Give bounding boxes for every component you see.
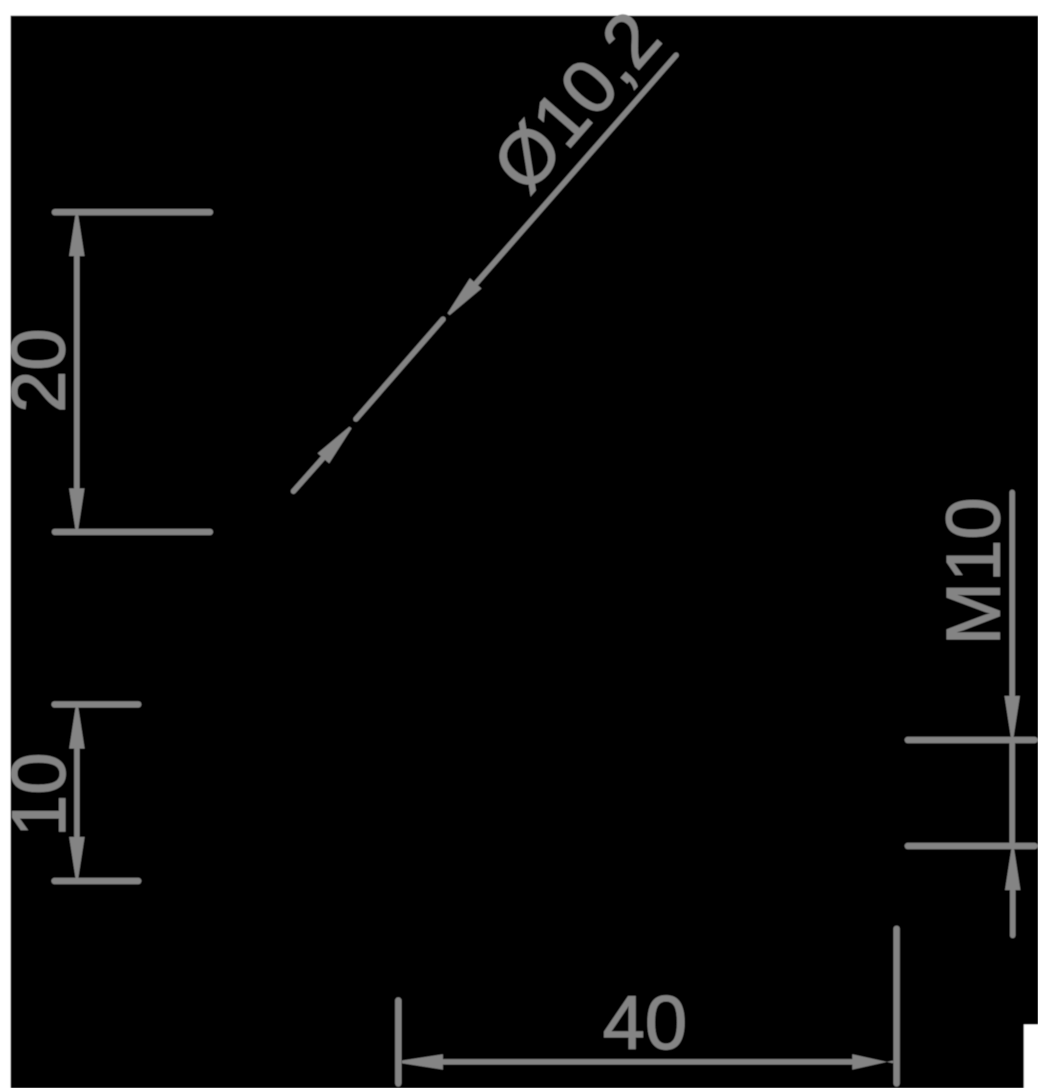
svg-text:20: 20 <box>0 328 82 413</box>
dia arrowhead upper (points down-left) <box>448 278 482 315</box>
dim 40 extension tick left <box>395 1001 401 1084</box>
dim 10 arrowhead down <box>69 837 84 878</box>
dim M10 upper leader line <box>1009 492 1015 698</box>
svg-text:M10: M10 <box>932 497 1017 645</box>
dim 40 arrowhead left <box>402 1054 443 1069</box>
dim 20 arrowhead down <box>69 488 84 529</box>
dim 40 arrowhead right <box>852 1054 893 1069</box>
dia dimension line middle segment <box>356 319 443 419</box>
dia dimension line lower segment <box>294 455 326 491</box>
dim 20 extension tick bottom <box>55 529 210 535</box>
dim M10 lower leader line <box>1010 888 1016 935</box>
dim 10 extension tick top <box>55 701 139 707</box>
dim M10 arrowhead up <box>1005 849 1020 890</box>
dia arrowhead lower (points up-right) <box>318 427 352 464</box>
svg-text:10: 10 <box>0 753 82 838</box>
dim M10 extension tick top <box>908 737 1035 743</box>
dim M10 arrowhead down <box>1005 696 1020 737</box>
dim 10 extension tick bottom <box>55 878 139 884</box>
dim 20 arrowhead up <box>69 215 84 256</box>
dim 20 extension tick top <box>55 209 210 215</box>
dim 40 dimension line <box>443 1059 852 1065</box>
dim 40 extension tick right <box>893 929 899 1084</box>
dia dimension line upper segment <box>473 55 676 287</box>
white corner cutout bottom-right <box>1024 1025 1038 1088</box>
dim 20 dimension line <box>74 256 80 488</box>
dim M10 line between ticks <box>1009 740 1015 846</box>
dim 10 arrowhead up <box>69 708 84 749</box>
svg-text:40: 40 <box>603 981 688 1066</box>
dim M10 extension tick bottom <box>908 843 1035 849</box>
dim 10 dimension line <box>74 749 80 838</box>
